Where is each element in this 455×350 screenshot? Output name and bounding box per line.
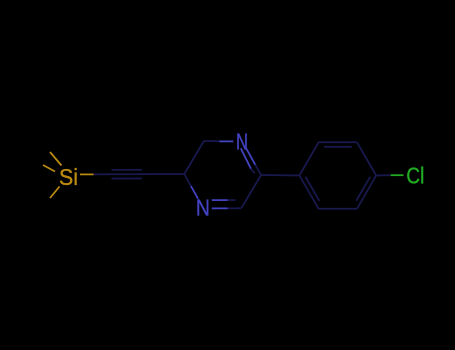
- wire: pyrazine double bond C3=N4 main carbon half: [228, 207, 242, 209]
- wire: pyrazine double bond N1=C2 inner carbon half: [251, 169, 255, 174]
- wire: pyrazine double bond N1=C2 inner nitrogen half: [241, 148, 251, 168]
- wire: triple bond upper line: [112, 169, 143, 171]
- wire: triple bond lower line: [112, 178, 143, 180]
- wire: pyrazine double bond C3=N4 inner nitrogen half: [212, 199, 228, 201]
- wire: bond P4-Cl carbon half: [376, 174, 391, 176]
- wire: pyrazine double bond C3=N4 inner carbon half: [228, 199, 236, 201]
- wire: pyrazine bond N4-C5 carbon half: [184, 174, 191, 186]
- wire: phenyl edge P5-P6: [319, 208, 357, 210]
- wire: TMS methyl bond left: [43, 165, 55, 172]
- wire: TMS methyl bond down-left: [50, 187, 60, 199]
- wire: pyrazine bond C2-C3: [241, 175, 261, 208]
- wire: phenyl inner double line P4-P5: [356, 177, 370, 201]
- wire: pyrazine double bond N1=C2 main carbon half: [255, 165, 261, 175]
- wire: phenyl edge P3-P4: [357, 142, 376, 175]
- wire: bond Cb-C5: [146, 173, 184, 175]
- wire: bond C2-P1 biaryl link: [261, 174, 299, 177]
- wire: bond P4-Cl chlorine half: [391, 174, 404, 176]
- wire: pyrazine bond C6-N1 nitrogen half: [219, 140, 233, 142]
- wire: bond Si-Ca gold half: [80, 173, 94, 175]
- wire: pyrazine bond C6-N1 carbon half: [204, 140, 220, 142]
- svg-text:Cl: Cl: [406, 163, 424, 189]
- wire: pyrazine double bond N1=C2 main nitrogen half: [246, 149, 255, 165]
- wire: TMS methyl bond up-left: [50, 152, 62, 166]
- wire: pyrazine bond N4-C5 nitrogen half: [191, 186, 198, 199]
- wire: phenyl inner double line P2-P3: [324, 146, 352, 148]
- svg-text:N: N: [236, 128, 248, 154]
- svg-text:Si: Si: [59, 164, 78, 190]
- wire: phenyl inner double line P6-P1: [306, 177, 320, 201]
- wire: phenyl edge P2-P3: [319, 141, 357, 143]
- wire: triple bond Ca#Cb main: [108, 173, 146, 175]
- wire: phenyl edge P6-P1: [299, 176, 318, 209]
- wire: bond Si-Ca carbon half: [94, 173, 108, 175]
- wire: phenyl edge P1-P2: [299, 142, 318, 175]
- wire: pyrazine bond C5-C6: [184, 141, 204, 174]
- svg-text:N: N: [196, 195, 210, 221]
- wire: pyrazine double bond C3=N4 main nitrogen half: [212, 207, 228, 209]
- wire: phenyl edge P4-P5: [357, 176, 376, 209]
